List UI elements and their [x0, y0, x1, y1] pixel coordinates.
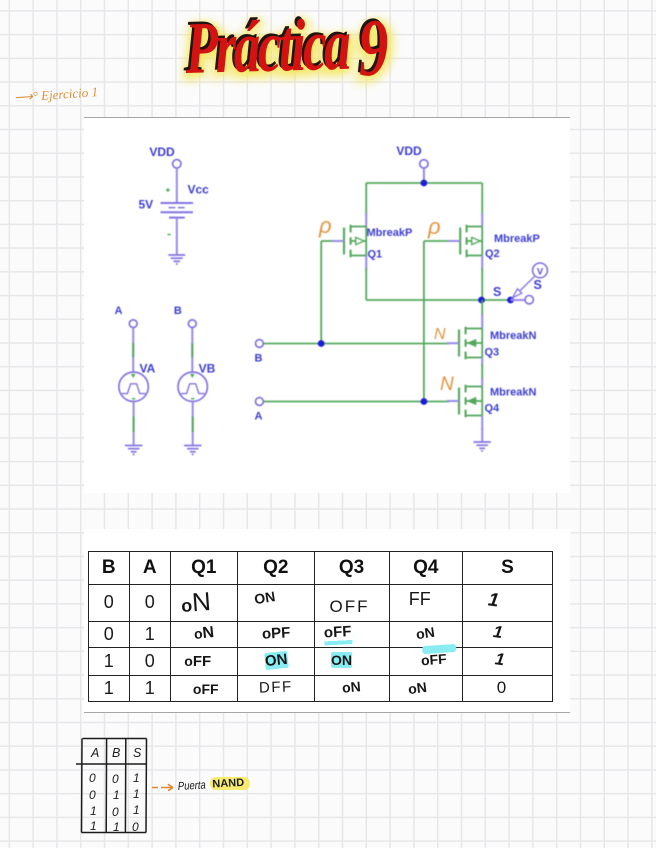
junction VDD rail — [421, 180, 428, 187]
text Puerta — [178, 780, 207, 793]
small table header B — [112, 746, 120, 760]
svg-text:0: 0 — [89, 788, 96, 802]
column A bits — [89, 771, 97, 833]
svg-text:MbreakP: MbreakP — [494, 233, 540, 245]
text NAND — [212, 777, 244, 791]
small table header S — [133, 746, 142, 760]
svg-text:0: 0 — [132, 820, 139, 834]
svg-text:Q1: Q1 — [368, 249, 383, 261]
pin label A — [115, 305, 123, 317]
ground (VA) — [125, 446, 142, 455]
wire Q3 source to Q4 drain — [481, 358, 483, 387]
annotation P (Q2) — [427, 214, 441, 239]
pin circle B input — [256, 340, 264, 348]
svg-text:1: 1 — [133, 771, 140, 785]
label Q4 — [485, 403, 501, 415]
junction A line — [421, 398, 428, 405]
svg-text:V: V — [537, 267, 544, 278]
svg-text:NAND: NAND — [212, 777, 244, 791]
svg-text:1: 1 — [90, 804, 97, 818]
label 5V — [139, 198, 154, 212]
svg-text:VDD: VDD — [396, 144, 422, 158]
svg-text:B: B — [174, 305, 182, 317]
transistor Q2 MbreakP — [460, 225, 482, 257]
svg-text:N: N — [434, 326, 446, 343]
pulse waveform VB — [181, 384, 205, 394]
svg-text:1: 1 — [113, 820, 120, 834]
probe label S — [534, 278, 542, 292]
schematic screenshot background — [84, 117, 570, 493]
title Practica 9 — [184, 0, 387, 93]
gate wire Q1 — [321, 240, 344, 242]
column B bits — [112, 772, 120, 834]
svg-text:A: A — [255, 411, 263, 423]
ground (VB) — [184, 446, 201, 455]
small table header A — [90, 746, 99, 760]
svg-text:B: B — [112, 746, 120, 760]
table screenshot background — [84, 529, 570, 713]
label Vcc — [188, 183, 210, 197]
svg-text:Q4: Q4 — [485, 403, 501, 415]
pin circle VDD right — [420, 160, 428, 168]
svg-text:VB: VB — [199, 362, 216, 376]
note Ejercicio 1 — [14, 84, 99, 106]
wire S pin stub — [511, 299, 526, 301]
svg-text:VA: VA — [140, 362, 156, 376]
label Q1 — [368, 249, 383, 261]
wire VDD rail — [366, 182, 482, 184]
label VA — [140, 362, 156, 376]
svg-text:5V: 5V — [139, 198, 154, 212]
svg-text:ρ: ρ — [427, 214, 441, 239]
svg-text:1: 1 — [133, 803, 140, 817]
wire Q2 source to S — [481, 256, 483, 301]
pin circle VDD left — [173, 160, 181, 168]
svg-text:ρ: ρ — [318, 213, 332, 238]
label Q2 — [485, 248, 500, 260]
source VA circle — [119, 372, 148, 401]
arrow to Puerta NAND — [152, 784, 173, 790]
net label VDD (left) — [149, 145, 175, 159]
transistor Q4 MbreakN — [459, 385, 482, 417]
label MbreakP Q1 — [367, 227, 413, 239]
svg-text:S: S — [534, 278, 542, 292]
svg-text:1: 1 — [113, 788, 120, 802]
svg-text:Q3: Q3 — [485, 347, 500, 359]
net label S — [493, 285, 501, 299]
svg-text:Q2: Q2 — [485, 248, 500, 260]
voltage probe V — [513, 263, 548, 298]
transistor Q1 MbreakP — [344, 225, 366, 257]
pin circle A input — [256, 398, 264, 406]
wire battery to ground — [176, 218, 178, 255]
pin label B — [174, 305, 182, 317]
wire A input line — [263, 400, 459, 403]
wire S net horizontal — [366, 299, 510, 301]
svg-text:0: 0 — [112, 772, 119, 786]
wire B input line — [263, 342, 459, 344]
small handwritten table — [70, 730, 300, 848]
svg-text:Puerta: Puerta — [178, 780, 207, 793]
svg-text:1: 1 — [133, 787, 140, 801]
junction S at pin — [507, 297, 514, 304]
svg-text:A: A — [115, 305, 123, 317]
source VB circle — [178, 372, 207, 401]
wire B vertical to Q1 gate — [320, 241, 322, 344]
svg-text:0: 0 — [89, 771, 96, 785]
wire rail to Q2 drain — [481, 183, 483, 227]
junction B line — [318, 340, 325, 347]
label B input — [255, 353, 263, 365]
ground (Q4) — [474, 442, 491, 451]
truth table — [88, 551, 554, 703]
wire VDD stub — [423, 168, 425, 183]
wire A pin to VA — [131, 328, 135, 378]
column S bits — [132, 771, 140, 834]
highlight NAND — [210, 777, 250, 790]
label MbreakP Q2 — [494, 233, 540, 245]
wire S to Q3 drain — [481, 300, 483, 329]
label MbreakN Q3 — [490, 330, 537, 342]
svg-text:B: B — [255, 353, 263, 365]
wire B pin to VB — [190, 328, 194, 378]
svg-text:MbreakP: MbreakP — [367, 227, 413, 239]
svg-text:VDD: VDD — [149, 145, 175, 159]
wire VA to ground — [133, 402, 135, 445]
wire A vertical to Q2 gate — [423, 241, 425, 402]
pin circle A — [129, 320, 137, 328]
svg-text:1: 1 — [90, 819, 97, 833]
battery V1 plates — [161, 203, 194, 218]
svg-text:S: S — [133, 746, 142, 760]
minus mark battery — [168, 234, 171, 236]
wire VB to ground — [192, 402, 194, 445]
svg-text:MbreakN: MbreakN — [490, 387, 537, 399]
svg-text:N: N — [440, 374, 454, 395]
wire rail to Q1 drain — [365, 183, 367, 227]
wire Q1 source to S — [365, 256, 367, 301]
svg-text:A: A — [90, 746, 99, 760]
gate wire Q2 — [424, 240, 460, 242]
wire Q4 source to ground — [481, 416, 483, 442]
label A input — [255, 411, 263, 423]
plus mark Vcc — [166, 188, 169, 191]
pin circle B (left source) — [188, 320, 196, 328]
annotation P (Q1) — [318, 213, 332, 238]
annotation N (Q4) — [440, 374, 454, 395]
label MbreakN Q4 — [490, 387, 537, 399]
pulse waveform VA — [122, 384, 146, 394]
svg-text:0: 0 — [112, 805, 119, 819]
annotation N (Q3) — [434, 326, 446, 343]
small table frame — [76, 739, 147, 833]
junction S at Q2 — [478, 297, 485, 304]
wire VDD to Vcc battery — [176, 168, 178, 202]
svg-text:S: S — [493, 285, 501, 299]
svg-text:Vcc: Vcc — [188, 183, 210, 197]
pin circle S — [525, 296, 533, 304]
ground (Vcc) — [168, 255, 185, 264]
svg-text:MbreakN: MbreakN — [490, 330, 537, 342]
minus mark VA — [132, 398, 135, 400]
minus mark VB — [191, 398, 194, 400]
transistor Q3 MbreakN — [459, 327, 482, 359]
label Q3 — [485, 347, 500, 359]
label VB — [199, 362, 216, 376]
net label VDD (right) — [396, 144, 422, 158]
